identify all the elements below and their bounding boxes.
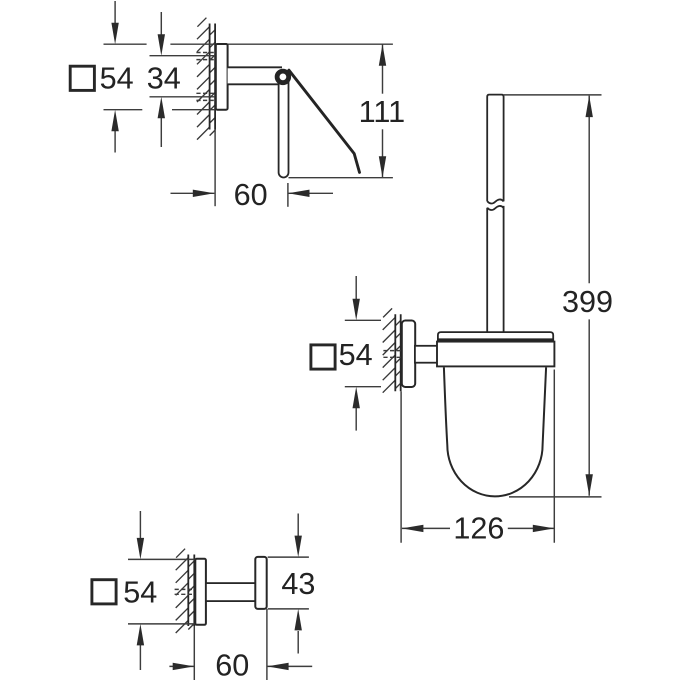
dim 111 line + arrows bbox=[382, 44, 384, 93]
dim sq54 (hook) extension lines bbox=[128, 558, 195, 560]
dim 34 extension line bottom (y=96.8) bbox=[150, 96, 216, 98]
square symbol 54 (hook) bbox=[92, 580, 116, 604]
svg-text:34: 34 bbox=[147, 61, 181, 95]
wall hatching paper holder bbox=[197, 18, 215, 140]
svg-text:54: 54 bbox=[123, 576, 157, 610]
holder cap thick stripe bbox=[438, 338, 553, 341]
mounting plate (hook) bbox=[195, 559, 206, 625]
holder main band bbox=[437, 342, 554, 367]
svg-text:43: 43 bbox=[281, 567, 315, 601]
hook head bbox=[255, 557, 266, 609]
dim 34 extension line top (y=55.7) bbox=[150, 55, 216, 57]
dim 60 (paper holder) bbox=[214, 130, 216, 207]
holder arm bbox=[228, 67, 283, 84]
wall face lines robe hook bbox=[187, 555, 189, 627]
dim 126 extensions bbox=[400, 391, 402, 543]
dim sq54 (brush) arrows bbox=[355, 276, 357, 300]
wall face lines paper holder bbox=[209, 24, 211, 130]
glass cup bbox=[444, 367, 546, 496]
brush handle lower part bbox=[487, 206, 503, 334]
break wave upper bbox=[487, 199, 503, 203]
dim sq54 (brush) extension lines bbox=[345, 319, 381, 321]
screw hole dashed lines (brush) bbox=[383, 350, 401, 352]
wall face lines brush holder bbox=[394, 314, 396, 391]
svg-text:60: 60 bbox=[234, 178, 268, 212]
wall hatching brush holder bbox=[383, 308, 401, 392]
dim 399 extensions bbox=[504, 94, 602, 96]
square symbol 54 (paper holder) bbox=[70, 66, 94, 90]
mounting plate (paper holder) bbox=[216, 44, 228, 110]
svg-text:54: 54 bbox=[339, 338, 373, 372]
holder top cap bbox=[438, 332, 553, 342]
brush arm bbox=[415, 346, 438, 363]
brush handle upper part bbox=[487, 95, 503, 202]
svg-text:399: 399 bbox=[562, 285, 613, 319]
dim 60 (hook) bbox=[193, 626, 195, 680]
dim 399 line + arrows bbox=[588, 96, 590, 284]
screw hole dashed lines upper bbox=[196, 52, 215, 54]
square symbol 54 (brush) bbox=[311, 345, 335, 369]
dim 43 extension lines bbox=[268, 556, 309, 558]
screw hole dashed lines (hook) bbox=[175, 588, 195, 590]
paper flap bbox=[289, 70, 360, 172]
dim sq54 (hook) arrows bbox=[139, 511, 141, 539]
pivot circle bbox=[277, 71, 289, 83]
dim 43 arrows bbox=[297, 514, 299, 537]
dim 54 extension line bottom (y=109.7) bbox=[104, 109, 143, 111]
dim 54 arrows bbox=[114, 1, 116, 24]
roller bar bbox=[279, 82, 289, 178]
hook stem bbox=[206, 583, 256, 601]
dim 126 line + arrows bbox=[402, 527, 450, 529]
svg-text:111: 111 bbox=[359, 95, 406, 129]
wall hatching robe hook bbox=[176, 549, 195, 633]
svg-text:60: 60 bbox=[215, 649, 249, 680]
dim 54 extension line top (y=44.2) bbox=[104, 43, 147, 45]
svg-text:126: 126 bbox=[453, 511, 504, 545]
dim 111 bottom extension bbox=[289, 177, 393, 179]
svg-text:54: 54 bbox=[100, 61, 134, 95]
mounting plate (brush) bbox=[402, 321, 415, 388]
screw hole dashed lines lower bbox=[196, 92, 215, 94]
dim 34 arrows bbox=[160, 12, 162, 36]
